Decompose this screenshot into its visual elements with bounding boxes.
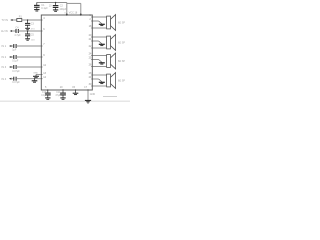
capacitor C6 — [14, 44, 16, 48]
wire row5 b — [16, 66, 41, 68]
wire row1 a — [13, 19, 17, 21]
wire row4 b — [16, 56, 41, 58]
node input arrow 3 — [9, 45, 11, 47]
wire row3 a — [11, 45, 14, 47]
wire out2 gnd stub — [92, 40, 98, 42]
ground for C5 — [25, 39, 30, 40]
wire out2- — [92, 47, 106, 49]
wire out4- — [92, 85, 106, 87]
wire out1+ — [92, 16, 106, 18]
speaker group 1 — [89, 14, 126, 30]
svg-text:47µF: 47µF — [55, 95, 61, 97]
wire out4+ — [92, 74, 106, 76]
svg-text:0.1µF: 0.1µF — [41, 7, 48, 10]
wire row6 b — [16, 78, 41, 80]
wire bottom right drop — [87, 90, 89, 100]
node VCC1 junction — [66, 14, 68, 16]
node C10 junction — [47, 89, 48, 90]
op-amp U1 (power amplifier IC) — [41, 15, 92, 90]
ground out1 — [99, 24, 105, 25]
wire VCC drop to pin 3 — [66, 3, 68, 16]
svg-text:0.1µF: 0.1µF — [12, 59, 19, 62]
svg-text:VCC 18: VCC 18 — [69, 12, 78, 15]
svg-text:IN 1: IN 1 — [2, 45, 7, 48]
svg-text:GND: GND — [33, 73, 38, 75]
wire row1 b — [22, 19, 42, 21]
node input arrow 6 — [9, 78, 11, 80]
ground out2 — [99, 44, 105, 45]
wire out3+ — [92, 55, 106, 57]
node input arrow 2 — [10, 30, 12, 32]
svg-text:TV IN: TV IN — [2, 19, 9, 22]
capacitor C5 shunt — [25, 31, 30, 38]
capacitor C4 — [16, 29, 18, 33]
svg-text:IN 2: IN 2 — [2, 56, 7, 59]
wire row6 a — [11, 78, 14, 80]
wire out2+ — [92, 36, 106, 38]
speaker group 2 — [89, 34, 126, 50]
svg-text:0.1µF: 0.1µF — [41, 95, 48, 97]
node input arrow 4 — [9, 56, 11, 58]
wire GND pin stub — [36, 74, 41, 76]
svg-text:0.47µF: 0.47µF — [12, 81, 20, 84]
ground for C11 — [60, 98, 65, 99]
capacitor C8 — [14, 65, 16, 69]
faint mark — [103, 96, 117, 98]
node VCC2 junction — [80, 14, 82, 16]
ground bottom stub — [73, 90, 79, 95]
node row2 junction — [27, 30, 28, 31]
speaker group 3 — [89, 53, 126, 69]
ground for C3 — [25, 28, 30, 29]
svg-text:GND: GND — [90, 93, 96, 96]
node row1 junction — [27, 19, 28, 20]
wire VCC2 drop to pin 16 — [80, 3, 82, 15]
node input arrow 5 — [9, 66, 11, 68]
ground for C2 — [53, 10, 58, 11]
svg-text:AU IN: AU IN — [1, 30, 8, 33]
ground row6 shunt — [32, 79, 38, 83]
wire out4 gnd stub — [92, 78, 98, 80]
speaker SP1 — [107, 16, 111, 29]
wire out1- — [92, 27, 106, 29]
node C2 junction — [55, 2, 57, 4]
ground bottom right — [85, 100, 91, 103]
ground out3 — [99, 63, 105, 64]
capacitor C1 — [34, 3, 40, 10]
ground bus (faint bottom rail) — [0, 100, 130, 102]
wire row3 b — [16, 45, 41, 47]
wire VCC2 jog — [67, 2, 81, 4]
wire row2 b — [18, 30, 41, 32]
capacitor C3 shunt — [25, 20, 30, 28]
capacitor C10 — [45, 90, 51, 98]
pin ticks — [41, 14, 93, 91]
wire out1 gnd stub — [92, 20, 98, 22]
ground for C10 — [45, 98, 50, 99]
wire out3- — [92, 66, 106, 68]
capacitor C11 — [60, 90, 66, 98]
speaker SP4 — [107, 74, 111, 87]
svg-text:IN 3: IN 3 — [2, 66, 7, 69]
speaker SP3 — [107, 55, 111, 68]
node input arrow 1 — [10, 19, 12, 21]
speaker group 4 — [89, 72, 126, 88]
speaker SP2 — [107, 36, 111, 49]
svg-text:0.47µF: 0.47µF — [12, 70, 20, 73]
wire row5 a — [11, 66, 14, 68]
wire row4 a — [11, 56, 14, 58]
capacitor C9 — [14, 77, 16, 81]
resistor R1 — [17, 19, 22, 22]
ground GND pin — [33, 75, 39, 78]
capacitor C7 — [14, 55, 16, 59]
svg-text:8Ω SP: 8Ω SP — [118, 42, 125, 45]
ground for C1 — [34, 10, 39, 11]
svg-text:100µF: 100µF — [59, 8, 66, 11]
ground out4 — [99, 82, 105, 83]
wire out3 gnd stub — [92, 59, 98, 61]
node row6 junction — [34, 78, 35, 79]
svg-text:1µF: 1µF — [12, 48, 17, 51]
svg-text:8Ω SP: 8Ω SP — [118, 80, 125, 83]
svg-text:IN 4: IN 4 — [2, 78, 7, 81]
wire VCC rail — [37, 2, 67, 4]
capacitor C2 — [53, 3, 59, 10]
wire row2 a — [12, 30, 16, 32]
svg-text:4.7µF: 4.7µF — [14, 34, 21, 37]
svg-text:8Ω SP: 8Ω SP — [118, 22, 125, 25]
svg-text:8Ω SP: 8Ω SP — [118, 60, 125, 63]
node C11 junction — [62, 89, 63, 90]
